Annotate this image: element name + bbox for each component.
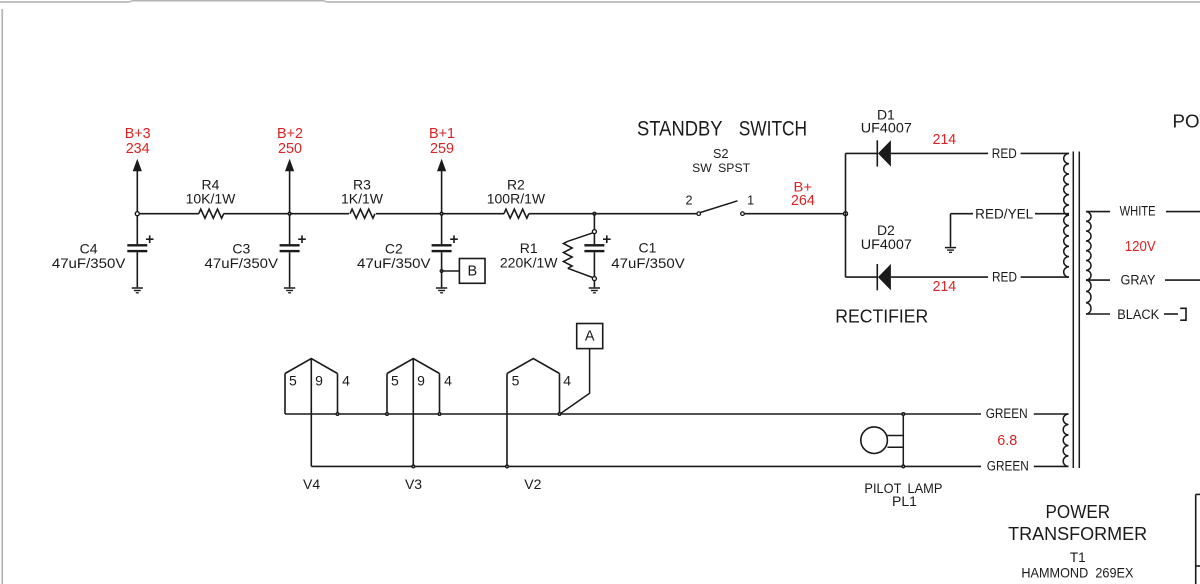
svg-text:264: 264 [791,193,815,209]
net bracket BLACK [1180,308,1186,320]
svg-text:5: 5 [289,373,297,389]
svg-text:STANDBY: STANDBY [637,117,723,140]
svg-text:234: 234 [126,141,150,157]
tube V3 heater [386,374,388,415]
capacitor C2 [432,244,452,246]
node pilot bottom junction [901,464,905,468]
pin circle R1 bottom [592,277,596,281]
wire D2 to RED [891,276,988,278]
wire heater upper bus [285,413,981,415]
wire R1 top diagonal [568,233,593,241]
svg-text:UF4007: UF4007 [861,236,912,252]
transformer HV secondary winding [1064,153,1069,277]
wire D1 to RED [891,152,988,154]
svg-text:47uF/350V: 47uF/350V [205,255,279,271]
transformer primary winding lower [1086,280,1091,314]
ground C4 [132,287,143,289]
wire R1 bottom diagonal [568,268,593,277]
svg-text:4: 4 [444,373,452,389]
svg-text:SWITCH: SWITCH [739,117,807,140]
svg-text:GREEN: GREEN [987,459,1029,474]
svg-text:UF4007: UF4007 [861,120,912,136]
svg-text:A: A [585,329,595,345]
svg-text:B: B [467,263,477,279]
svg-text:5: 5 [391,373,399,389]
transformer primary winding upper [1086,212,1091,281]
capacitor C4 [127,244,147,246]
svg-text:WHITE: WHITE [1120,204,1156,219]
wire pilot lamp bottom stub [887,446,903,448]
resistor R3 [350,209,375,218]
wire C1 top [593,234,595,245]
svg-text:1K/1W: 1K/1W [341,190,384,206]
svg-text:10K/1W: 10K/1W [186,190,237,206]
diode D1 [876,140,878,166]
wire center tap down [950,214,952,247]
wire pilot lamp vertical [902,414,904,466]
wire heater lower bus right [1034,465,1069,467]
ground C1 [589,287,600,289]
svg-text:HAMMOND 269EX: HAMMOND 269EX [1021,565,1134,581]
node B+3 junction [135,212,139,216]
svg-text:V4: V4 [303,476,320,492]
wire bus R2-switch pin2 [529,213,697,215]
wire bus R4-R3 [224,213,350,215]
node V2 pin4 junction [557,412,561,416]
svg-text:4: 4 [342,373,350,389]
svg-text:POWER: POWER [1046,501,1111,522]
wire GRAY right [1165,279,1200,281]
svg-text:RED: RED [992,270,1017,285]
svg-text:9: 9 [417,373,425,389]
svg-text:SW SPST: SW SPST [692,161,750,175]
svg-text:B+3: B+3 [125,126,151,142]
svg-text:V2: V2 [524,476,541,492]
svg-text:BLACK: BLACK [1117,307,1159,322]
wire bus to C1 [593,214,595,230]
wire heater upper bus right [1034,413,1069,415]
capacitor C1 [584,244,604,246]
svg-text:POWER: POWER [1173,111,1200,132]
wire C2 top [441,214,443,245]
svg-text:214: 214 [933,132,957,148]
switch S2 pin 2 circle [697,212,701,216]
wire RED to winding top [1021,152,1069,154]
svg-text:250: 250 [278,141,302,157]
wire B+ node up [845,153,847,213]
svg-text:RECTIFIER: RECTIFIER [835,306,928,327]
wire GRAY lead [1086,279,1110,281]
node V3 pin5 junction [385,412,389,416]
wire C3 bottom [289,252,291,287]
wire center tap stub [951,213,974,215]
wire B+ node down [845,214,847,277]
node B+1 junction [440,212,444,216]
wire WHITE right [1166,211,1200,213]
wire C2 bottom [441,252,443,287]
tube V4 heater [284,374,286,415]
resistor R1 [564,241,573,268]
svg-text:C1: C1 [639,239,657,255]
port arrow B+2 [289,171,291,214]
node R1C1 top junction [592,212,596,216]
svg-text:120V: 120V [1125,239,1156,255]
node V3 pin4 junction [437,412,441,416]
ground center tap [945,247,956,249]
node B+ junction [844,212,848,216]
wire C3 top [289,214,291,245]
svg-text:5: 5 [512,373,520,389]
wire to D2 [846,276,878,278]
wire C1 bottom [593,252,595,277]
port arrow B+3 [136,171,138,214]
node V3 pin9 junction [411,464,415,468]
wire winding center tap [1035,213,1069,215]
wire C4 top [136,214,138,245]
svg-text:GRAY: GRAY [1121,273,1156,288]
wire C2 to B box [442,270,460,272]
wire RED to winding bottom [1021,276,1069,278]
svg-text:220K/1W: 220K/1W [500,254,558,270]
terminal box bottom right [1195,494,1197,584]
wire C1 to ground [593,281,595,288]
ground C2 [436,287,447,289]
node B+2 junction [288,212,292,216]
switch S2 pin 1 circle [741,212,745,216]
pilot lamp PL1 circle [861,427,888,454]
svg-text:47uF/350V: 47uF/350V [611,255,685,271]
svg-text:214: 214 [933,279,957,295]
svg-text:GREEN: GREEN [986,406,1028,421]
svg-text:RED/YEL: RED/YEL [975,206,1033,221]
tube V2 heater [506,374,508,467]
svg-text:PL1: PL1 [892,493,917,509]
svg-text:47uF/350V: 47uF/350V [52,255,126,271]
svg-text:TRANSFORMER: TRANSFORMER [1008,523,1147,544]
svg-text:S2: S2 [713,147,728,161]
wire WHITE lead [1086,211,1110,213]
capacitor C3 [280,244,300,246]
resistor R2 [504,209,529,218]
wire to D1 [846,152,878,154]
net tag box A [577,324,603,349]
wire BLACK stub [1164,313,1178,315]
wire BLACK lead [1086,313,1110,315]
wire bus N1-R4 [137,213,199,215]
wire A box lead [560,349,590,414]
node pilot top junction [901,412,905,416]
transformer heater winding [1063,414,1068,466]
port arrow B+1 [441,171,443,214]
node V2 pin5 junction [505,464,509,468]
wire bus R3-R2 [376,213,504,215]
svg-text:B+2: B+2 [277,126,303,142]
switch S2 lever [700,201,737,213]
wire switch pin1 to B+ node [745,213,846,215]
svg-text:100R/1W: 100R/1W [487,190,546,206]
resistor R4 [199,209,224,218]
wire pilot lamp top stub [887,435,903,437]
svg-text:RED: RED [992,146,1017,161]
svg-text:259: 259 [430,141,454,157]
diode D2 [876,264,878,290]
pin circle R1 top [592,230,596,234]
wire heater lower bus [311,465,981,467]
wire C4 bottom [136,252,138,287]
svg-text:B+1: B+1 [429,126,455,142]
svg-text:6.8: 6.8 [997,433,1017,449]
svg-text:9: 9 [315,373,323,389]
svg-text:2: 2 [685,193,692,207]
svg-text:1: 1 [747,194,754,208]
svg-text:T1: T1 [1070,550,1086,565]
net tag box B [459,259,485,284]
ground C3 [284,287,295,289]
transformer core [1072,152,1074,469]
node V4 pin4 junction [335,412,339,416]
svg-text:47uF/350V: 47uF/350V [357,255,431,271]
svg-text:4: 4 [563,373,571,389]
svg-text:V3: V3 [405,476,422,492]
node C2-B junction [440,269,444,273]
